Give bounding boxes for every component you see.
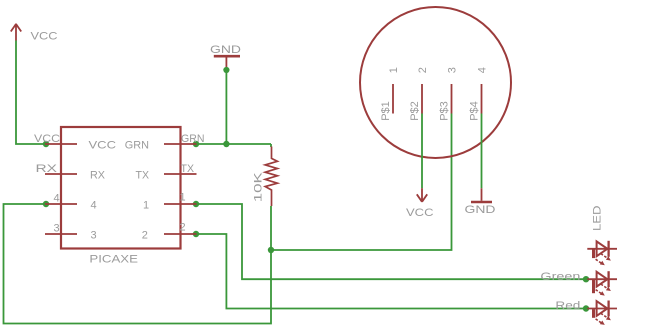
svg-text:3: 3 <box>447 67 459 73</box>
junction dot Red LED <box>583 305 589 311</box>
svg-text:1: 1 <box>143 199 149 211</box>
svg-text:GRN: GRN <box>125 139 149 151</box>
svg-text:P$1: P$1 <box>380 101 392 121</box>
LED D1 top <box>587 241 617 265</box>
pin P$3 line <box>451 84 453 114</box>
pin VCC stub left <box>45 143 77 145</box>
svg-text:GRN: GRN <box>181 133 205 145</box>
svg-text:GND: GND <box>210 44 241 56</box>
junction dot PICAXE pin 1 <box>193 201 199 207</box>
junction dot GRN net at x226 <box>223 141 229 147</box>
svg-text:TX: TX <box>181 163 195 175</box>
svg-text:P$4: P$4 <box>468 101 480 121</box>
resistor R1 10K <box>265 147 277 207</box>
ground symbol GND top <box>214 56 240 70</box>
dot GND stub <box>223 67 229 73</box>
pin P$2 line <box>421 84 423 114</box>
LED D3 Red <box>587 301 617 325</box>
svg-text:Green: Green <box>540 271 580 283</box>
pin GRN stub right <box>164 143 197 145</box>
wire PICAXE pin2 to Red LED <box>196 234 586 309</box>
wire VCC net to PICAXE pin VCC <box>16 41 46 145</box>
pin P$4 line <box>481 84 483 114</box>
pin 4 stub left <box>45 203 77 205</box>
connector J1 circle <box>360 7 511 158</box>
wire GRN net horizontal <box>196 143 271 145</box>
LED D2 Green <box>587 271 617 295</box>
junction dot resistor bottom <box>268 247 274 253</box>
svg-text:2: 2 <box>142 229 148 241</box>
svg-text:VCC: VCC <box>89 139 117 151</box>
wire GRN net to resistor top <box>270 144 272 147</box>
junction dot PICAXE pin 2 <box>193 231 199 237</box>
junction dot PICAXE GRN pin <box>193 141 199 147</box>
wire PICAXE pin1 to Green LED <box>196 204 586 279</box>
wire connector pin4 down <box>481 114 483 189</box>
junction dot PICAXE pin 4 <box>43 201 49 207</box>
svg-text:Red: Red <box>555 300 580 312</box>
svg-text:PICAXE: PICAXE <box>89 254 138 266</box>
svg-text:4: 4 <box>91 199 97 211</box>
svg-text:LED: LED <box>591 205 603 231</box>
svg-text:2: 2 <box>180 222 186 234</box>
pin 1 stub right <box>164 203 197 205</box>
svg-text:RX: RX <box>36 163 58 175</box>
wire GND symbol down to GRN net <box>225 70 227 144</box>
pin 2 stub right <box>164 233 197 235</box>
junction dot PICAXE VCC pin <box>43 141 49 147</box>
svg-text:P$2: P$2 <box>409 101 421 121</box>
pin TX stub right <box>164 173 197 175</box>
wire PICAXE pin4 loop to ground junction <box>4 204 272 324</box>
wire junction to connector pin 3 <box>271 114 452 251</box>
power symbol VCC below connector <box>417 188 427 202</box>
power symbol VCC top-left <box>11 24 21 41</box>
svg-text:10K: 10K <box>253 171 265 202</box>
svg-text:1: 1 <box>180 192 186 204</box>
svg-text:GND: GND <box>465 204 496 216</box>
wire resistor bottom to junction <box>270 206 272 250</box>
svg-text:VCC: VCC <box>31 31 58 43</box>
svg-text:2: 2 <box>417 67 429 73</box>
pin RX stub left <box>45 173 77 175</box>
svg-text:VCC: VCC <box>34 133 60 145</box>
svg-text:VCC: VCC <box>406 207 434 219</box>
junction dot Green LED <box>583 276 589 282</box>
wire connector pin2 down <box>421 114 423 189</box>
svg-text:4: 4 <box>54 192 60 204</box>
IC U1 PICAXE box <box>61 127 181 249</box>
ground symbol GND below connector <box>471 188 492 202</box>
svg-text:TX: TX <box>136 169 150 181</box>
svg-text:4: 4 <box>477 67 489 73</box>
svg-text:3: 3 <box>91 229 97 241</box>
svg-text:RX: RX <box>90 169 106 181</box>
svg-text:3: 3 <box>54 223 60 235</box>
svg-text:P$3: P$3 <box>438 101 450 121</box>
pin P$1 line <box>392 84 394 114</box>
pin 3 stub left <box>45 233 77 235</box>
svg-text:1: 1 <box>388 67 400 73</box>
